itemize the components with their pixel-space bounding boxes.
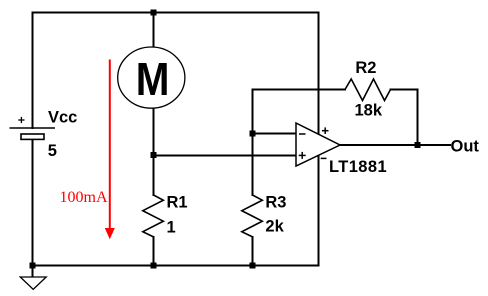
svg-text:LT1881: LT1881 (329, 158, 387, 176)
svg-text:R2: R2 (355, 59, 376, 77)
svg-text:5: 5 (48, 142, 57, 160)
svg-text:M: M (136, 55, 170, 106)
svg-text:Out: Out (451, 138, 480, 156)
svg-text:R3: R3 (265, 194, 286, 212)
svg-text:1: 1 (167, 219, 176, 237)
svg-text:100mA: 100mA (60, 189, 108, 206)
svg-text:18k: 18k (355, 102, 383, 120)
svg-text:2k: 2k (265, 218, 284, 236)
svg-text:R1: R1 (167, 194, 188, 212)
svg-text:Vcc: Vcc (48, 109, 77, 127)
